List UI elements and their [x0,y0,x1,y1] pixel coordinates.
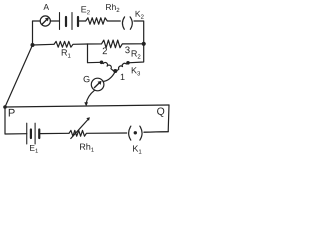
label Q [157,107,164,116]
battery E2 [59,13,61,30]
rheostat Rh2 [78,18,120,24]
junction dots [3,42,146,135]
wire R1 branch [33,43,55,46]
node terminal 1 [113,69,117,73]
key K1 ( . ) [129,126,131,140]
wire E1 to Rh1 [39,132,69,134]
label R1 [62,49,71,57]
left edge of bottom loop [5,107,27,134]
two-way key right arcs [117,63,128,71]
label 3 [125,46,130,53]
box right edge [128,44,144,63]
label K1 [133,145,141,153]
right edge of bottom loop [144,105,169,132]
wire node1 to galvanometer [103,73,115,82]
label G [84,76,90,82]
node left junction [31,43,35,47]
rheostat Rh1 [69,130,127,136]
node key left terminal [100,61,104,65]
label R2 [132,50,141,58]
label K2 [136,11,144,19]
label K3 [132,67,140,75]
battery E1 [26,123,28,144]
diagonal wire to P [5,45,33,107]
label Rh1 [80,143,94,152]
wire top-left vertical [33,21,41,45]
node key right terminal [126,61,130,65]
label 1 [121,74,125,80]
rheostat Rh1 arrow [71,120,88,139]
key K2 ( ) [122,17,124,29]
label Rh2 [106,4,119,12]
jockey wire from G [86,90,94,103]
node right junction [142,42,146,46]
galvanometer G [91,78,104,91]
label E2 [81,6,89,14]
jockey arrow [84,102,88,106]
ammeter A [40,16,50,26]
node P [3,105,7,109]
potentiometer wire P-Q [5,105,169,107]
wire K2 to right corner and down [134,21,144,44]
wire K1 to right [144,131,168,134]
two-way key left arcs [102,62,114,70]
box top edge with resistor R2 [88,40,144,48]
label P [9,109,15,117]
label A [43,4,49,10]
label 2 [103,47,107,54]
dot inside K1 [134,131,137,134]
wire A to battery [50,20,59,22]
label E1 [30,145,38,153]
resistor R1 [54,41,88,47]
box left edge [88,44,102,63]
